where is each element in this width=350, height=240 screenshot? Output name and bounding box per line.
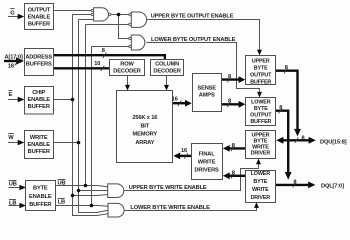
lower byte write driver box: [246, 171, 276, 203]
svg-text:MEMORY: MEMORY: [133, 132, 158, 138]
svg-text:OUTPUT: OUTPUT: [250, 113, 272, 119]
junction E upper write tap: [71, 194, 75, 198]
junction NAND output node: [117, 13, 121, 17]
wire UB input arrow: [9, 187, 22, 189]
svg-text:256K x 16: 256K x 16: [132, 115, 157, 121]
wire row decoder output: [127, 75, 129, 86]
arrowhead lower OE into output buffer: [257, 92, 262, 98]
svg-text:DRIVER: DRIVER: [251, 195, 271, 201]
bus lower output buffer to DQL node: [276, 111, 289, 173]
svg-text:UPPER: UPPER: [252, 58, 270, 64]
arrowhead row decoder into array: [125, 85, 130, 91]
wire LB input arrow: [9, 205, 22, 207]
bus array to sense amps: [173, 102, 187, 104]
svg-text:BYTE: BYTE: [253, 179, 267, 185]
wire W corner to NAND input 3: [79, 19, 94, 21]
upper byte write driver box: [246, 131, 276, 159]
svg-text:LOWER BYTE OUTPUT ENABLE: LOWER BYTE OUTPUT ENABLE: [151, 37, 236, 43]
gate AND G4 upper byte write enable: [108, 184, 124, 198]
svg-text:8: 8: [102, 48, 105, 54]
wire junction down to lower OE gate input 1: [119, 15, 129, 39]
junction LB tap: [90, 204, 94, 208]
wire UB buffer output to upper write gate: [56, 186, 108, 187]
wire LB vertical net: [91, 47, 93, 206]
wire W to upper write gate: [79, 190, 108, 192]
svg-text:ENABLE: ENABLE: [27, 142, 50, 148]
wire G input arrow: [8, 16, 20, 18]
gate AND G5 lower byte write enable: [108, 203, 124, 217]
svg-text:BYTE: BYTE: [33, 186, 48, 192]
svg-text:BIT: BIT: [140, 123, 149, 129]
svg-text:BUFFER: BUFFER: [28, 149, 50, 155]
wire E buffer output: [54, 99, 73, 101]
junction W upper write tap: [77, 189, 81, 193]
svg-text:OUTPUT: OUTPUT: [250, 72, 272, 78]
junction W buffer output: [77, 141, 81, 145]
svg-text:DECODER: DECODER: [153, 68, 180, 74]
svg-text:LOWER BYTE WRITE ENABLE: LOWER BYTE WRITE ENABLE: [130, 205, 210, 211]
wire W buffer output: [54, 142, 79, 144]
svg-text:DQU[15:8]: DQU[15:8]: [320, 139, 347, 145]
arrowhead upper WE into write driver: [256, 159, 261, 165]
gate AND G2 upper byte output enable: [131, 12, 146, 27]
svg-text:ADDRESS: ADDRESS: [25, 54, 52, 60]
wire E to upper write gate: [73, 195, 108, 196]
junction E buffer output: [71, 98, 75, 102]
write enable buffer box: [25, 131, 54, 159]
svg-text:DECODER: DECODER: [113, 68, 140, 74]
svg-text:E: E: [9, 92, 13, 98]
column decoder box: [151, 60, 184, 76]
svg-text:ENABLE: ENABLE: [27, 97, 50, 103]
wire E corner to NAND input 2: [73, 14, 92, 16]
gate AND G3 lower byte output enable: [131, 35, 145, 50]
wire upper byte output enable to upper output buffer: [147, 20, 260, 51]
svg-text:A[17:0]: A[17:0]: [5, 55, 23, 61]
svg-text:AMPS: AMPS: [199, 93, 215, 99]
wire upper byte write enable to upper write driver: [124, 164, 259, 191]
bus upper output buffer to DQU node: [276, 71, 298, 130]
memory array box: [117, 91, 173, 163]
svg-text:16: 16: [172, 96, 178, 102]
svg-text:BUFFER: BUFFER: [29, 202, 51, 208]
svg-text:UB: UB: [58, 180, 66, 186]
svg-text:8: 8: [302, 136, 305, 142]
address buffers box: [25, 49, 54, 76]
svg-text:BUFFER: BUFFER: [250, 79, 271, 85]
svg-text:ROW: ROW: [120, 62, 134, 68]
svg-text:UB: UB: [9, 182, 17, 188]
svg-text:BUFFER: BUFFER: [250, 119, 271, 125]
svg-text:BUFFER: BUFFER: [28, 104, 50, 110]
svg-text:DRIVER: DRIVER: [251, 151, 271, 157]
gate NAND G1 (G,E inverted inputs, W input, inverted output): [94, 8, 109, 21]
arrowhead lower WE into write driver: [254, 202, 259, 208]
svg-text:FINAL: FINAL: [199, 151, 216, 157]
svg-text:WRITE: WRITE: [252, 187, 269, 193]
svg-text:CHIP: CHIP: [32, 90, 45, 96]
arrowhead W into buffer: [18, 140, 25, 145]
svg-text:10: 10: [94, 61, 100, 67]
bus address to column decoder: [54, 55, 165, 60]
svg-text:G: G: [10, 10, 15, 16]
svg-text:BYTE: BYTE: [254, 106, 268, 112]
final write drivers box: [192, 144, 223, 180]
bus upper write driver to final write drivers: [229, 147, 246, 149]
svg-text:DRIVERS: DRIVERS: [194, 168, 219, 174]
svg-text:LOWER: LOWER: [251, 171, 271, 177]
svg-text:16: 16: [181, 148, 187, 154]
wire G buffer output to NAND: [54, 10, 92, 12]
svg-text:ENABLE: ENABLE: [29, 194, 52, 200]
svg-text:DQL[7:0]: DQL[7:0]: [321, 183, 344, 189]
svg-text:OUTPUT: OUTPUT: [28, 7, 51, 13]
bus A[17:0] input: [4, 60, 18, 62]
svg-text:COLUMN: COLUMN: [155, 62, 179, 68]
svg-text:UPPER BYTE OUTPUT ENABLE: UPPER BYTE OUTPUT ENABLE: [151, 14, 234, 20]
wire W vertical net: [79, 20, 109, 213]
bus DQU bidirectional line: [282, 139, 311, 141]
arrowhead column decoder into array: [164, 85, 169, 91]
svg-text:UPPER BYTE WRITE ENABLE: UPPER BYTE WRITE ENABLE: [129, 185, 207, 191]
wire column decoder output: [166, 75, 168, 86]
wire UB corner to upper OE gate input 2: [86, 24, 129, 26]
row decoder box: [110, 60, 145, 76]
svg-text:WRITE: WRITE: [30, 135, 48, 141]
svg-text:ARRAY: ARRAY: [135, 140, 154, 146]
upper byte output buffer box: [246, 56, 276, 85]
arrowhead G into buffer: [18, 14, 25, 19]
bus final write drivers to array: [179, 155, 192, 157]
svg-text:LB: LB: [58, 200, 65, 206]
wire E input arrow: [8, 99, 20, 101]
arrowhead E into buffer: [18, 97, 25, 102]
bus sense amps to upper output buffer: [222, 78, 240, 80]
arrowhead UB into buffer: [19, 185, 26, 190]
wire lower byte write enable to lower write driver: [124, 207, 257, 211]
svg-text:WRITE: WRITE: [198, 160, 216, 166]
output enable buffer box: [25, 4, 54, 30]
svg-text:SENSE: SENSE: [197, 86, 216, 92]
byte enable buffer box: [26, 181, 56, 211]
arrowhead upper OE into output buffer: [257, 50, 262, 56]
wire lower byte output enable to lower output buffer: [146, 43, 259, 94]
svg-text:LB: LB: [9, 200, 16, 206]
arrowhead LB into buffer: [19, 203, 26, 208]
lower byte output buffer box: [246, 98, 276, 126]
svg-text:BUFFER: BUFFER: [28, 21, 50, 27]
bus address to row decoder: [54, 67, 110, 69]
bus sense amps to lower output buffer: [222, 103, 240, 105]
chip enable buffer box: [25, 87, 54, 115]
svg-text:W: W: [8, 135, 14, 141]
junction UB tap: [84, 184, 88, 188]
bus lower write driver to final write drivers: [229, 175, 246, 177]
wire UB vertical net: [85, 25, 87, 186]
wire E vertical net: [73, 15, 109, 216]
svg-text:LOWER: LOWER: [251, 100, 271, 106]
wire NAND output junction to upper OE gate: [111, 14, 129, 16]
wire W input arrow: [8, 142, 20, 144]
sense amps box: [193, 74, 222, 112]
wire LB buffer output to lower write gate: [56, 205, 109, 208]
svg-text:ENABLE: ENABLE: [28, 14, 51, 20]
bus DQL line: [276, 184, 311, 186]
svg-text:BUFFERS: BUFFERS: [26, 61, 52, 67]
wire LB corner to lower OE gate input 2: [92, 46, 129, 48]
svg-text:BYTE: BYTE: [254, 65, 268, 71]
svg-text:18: 18: [8, 64, 14, 70]
